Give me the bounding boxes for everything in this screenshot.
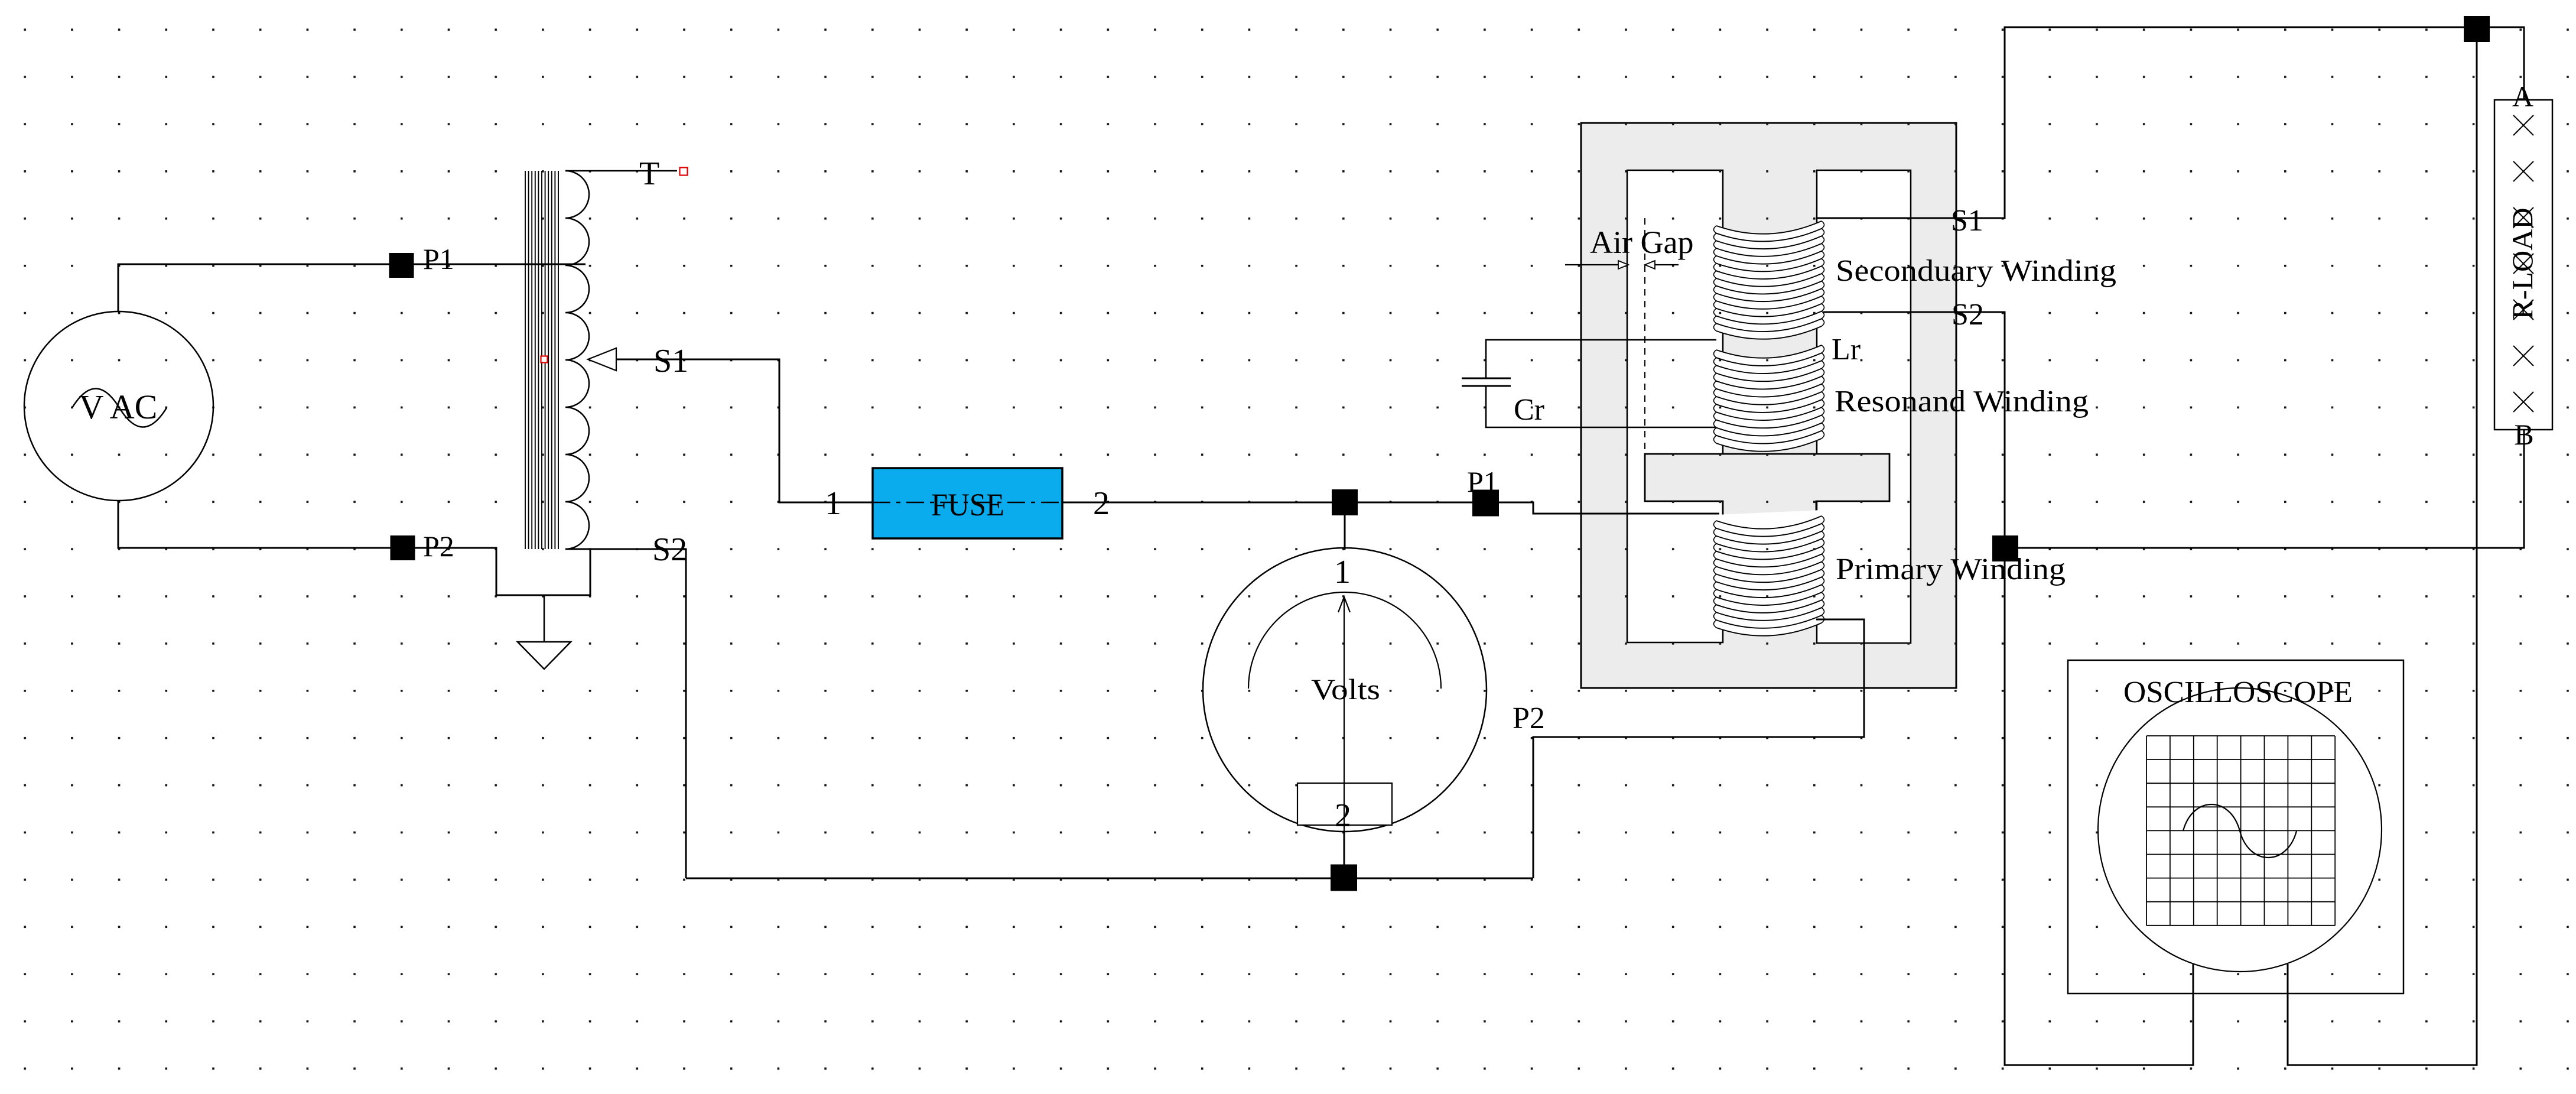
wire junction down to voltmeter xyxy=(1344,515,1346,550)
svg-text:S1: S1 xyxy=(1951,204,1983,238)
pin 1 label xyxy=(825,485,841,522)
transformer T core laminations xyxy=(525,171,558,549)
svg-text:R-LOAD: R-LOAD xyxy=(2506,208,2539,320)
pin 2 label xyxy=(1093,485,1110,522)
svg-text:Cr: Cr xyxy=(1514,393,1544,427)
svg-text:Resonand Winding: Resonand Winding xyxy=(1835,385,2089,418)
svg-text:Volts: Volts xyxy=(1311,673,1380,706)
svg-text:S2: S2 xyxy=(652,531,687,568)
label T xyxy=(639,155,659,192)
svg-text:Air Gap: Air Gap xyxy=(1590,225,1693,260)
label Cr xyxy=(1514,393,1544,427)
svg-text:2: 2 xyxy=(1335,797,1351,834)
wire bottom rail up to primary P2 xyxy=(1533,619,1864,878)
tap S1 arrow xyxy=(588,348,616,371)
wire P2 to transformer bottom loop xyxy=(415,548,590,595)
junction node (fuse out) xyxy=(1332,489,1358,515)
junction node (voltmeter bottom) xyxy=(1331,865,1357,891)
wire S1 tap to fuse xyxy=(616,359,873,502)
air gap arrows xyxy=(1565,261,1679,269)
red open pin T xyxy=(680,168,688,176)
secondary winding turns xyxy=(1714,221,1824,339)
svg-text:Primary Winding: Primary Winding xyxy=(1836,553,2066,586)
svg-text:2: 2 xyxy=(1093,485,1110,522)
oscilloscope xyxy=(2068,660,2403,994)
svg-text:S2: S2 xyxy=(1951,298,1984,332)
label OSCILLOSCOPE xyxy=(2123,676,2353,709)
svg-text:OSCILLOSCOPE: OSCILLOSCOPE xyxy=(2123,676,2353,709)
junction node top right xyxy=(2464,16,2490,42)
label S1 (transformer) xyxy=(653,343,688,379)
svg-text:FUSE: FUSE xyxy=(931,487,1004,522)
wire P1 node to primary winding xyxy=(1499,502,1719,514)
svg-text:A: A xyxy=(2512,80,2533,113)
wire VAC top to P1 xyxy=(118,264,389,312)
wire Cr top xyxy=(1486,340,1716,378)
label A xyxy=(2512,80,2533,113)
wire P1 to transformer core xyxy=(414,264,586,265)
svg-text:P2: P2 xyxy=(1513,702,1545,735)
voltmeter Volts xyxy=(1203,548,1487,834)
wire VAC bottom to P2 xyxy=(118,500,391,548)
svg-text:T: T xyxy=(639,155,659,192)
wire fuse to junction xyxy=(1062,502,1332,504)
svg-text:Lr: Lr xyxy=(1832,333,1861,366)
node P2 (left) xyxy=(391,530,454,563)
transformer T winding (8 arcs) xyxy=(565,171,589,549)
resonant transformer core (shell) xyxy=(1581,123,1956,688)
svg-text:P1: P1 xyxy=(423,242,454,275)
primary winding turns xyxy=(1714,510,1824,636)
node P1 (left) xyxy=(389,242,454,278)
wire junction to P1 node xyxy=(1358,502,1472,504)
svg-text:S1: S1 xyxy=(653,343,688,379)
label Primary Winding xyxy=(1836,553,2066,586)
wire secondary S2 xyxy=(1823,312,2005,536)
AC source V AC xyxy=(24,311,213,501)
wire top junction to R-LOAD A xyxy=(2489,27,2524,100)
resonant winding turns xyxy=(1714,345,1824,452)
label Lr xyxy=(1832,333,1861,366)
label S1 (secondary) xyxy=(1951,204,1983,238)
wire left rail down to oscilloscope xyxy=(2005,561,2193,1065)
svg-text:V AC: V AC xyxy=(79,388,158,426)
core left window xyxy=(1627,170,1723,642)
svg-text:1: 1 xyxy=(1334,554,1351,590)
label S2 (secondary) xyxy=(1951,298,1984,332)
svg-text:1: 1 xyxy=(825,485,841,522)
fuse FUSE xyxy=(873,468,1062,538)
capacitor Cr xyxy=(1462,378,1511,386)
label Seconduary Winding xyxy=(1836,254,2116,288)
svg-text:Seconduary Winding: Seconduary Winding xyxy=(1836,254,2116,288)
label Air Gap xyxy=(1590,225,1693,260)
label S2 (transformer) xyxy=(652,531,687,568)
wire voltmeter bottom xyxy=(1344,832,1345,865)
air gap dashed line xyxy=(1644,218,1645,453)
resistor R-LOAD xyxy=(2494,100,2552,430)
label P2 (resonant transformer) xyxy=(1513,702,1545,735)
core right window xyxy=(1817,170,1911,643)
wire coil top to T pin xyxy=(565,170,677,172)
node P1 (resonant transformer) xyxy=(1467,465,1499,517)
wire transformer bottom S2 xyxy=(565,549,686,878)
wire Cr bottom xyxy=(1486,386,1716,427)
bottom rail wire xyxy=(686,878,1533,879)
label B xyxy=(2514,418,2533,451)
svg-text:P2: P2 xyxy=(423,530,454,563)
ground xyxy=(518,595,571,669)
wire right rail down xyxy=(2288,42,2477,1065)
center yoke piece with air gap xyxy=(1645,454,1889,515)
junction node (S2/B) xyxy=(1992,535,2018,561)
label Resonand Winding xyxy=(1835,385,2089,418)
wire R-LOAD B to junction xyxy=(2018,430,2524,548)
red pin marker on core xyxy=(541,356,548,363)
wire secondary S1 xyxy=(1817,27,2464,218)
